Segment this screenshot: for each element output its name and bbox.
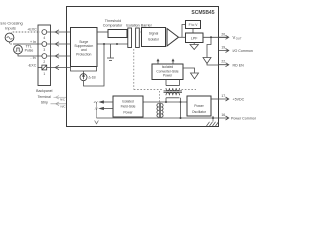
isolation barrier dashed line vertical xyxy=(133,49,135,90)
svg-text:Isolator: Isolator xyxy=(148,37,160,41)
pin 16 stub xyxy=(219,116,229,120)
transformer T1 secondary bar xyxy=(136,28,140,48)
svg-text:17: 17 xyxy=(221,94,225,98)
svg-text:+V: +V xyxy=(94,101,99,105)
transformer T3 core xyxy=(159,103,160,118)
isolation barrier dashed line through field transformer xyxy=(159,91,161,102)
svg-text:Power Common: Power Common xyxy=(231,117,256,121)
svg-text:3: 3 xyxy=(43,48,45,52)
wire oscillator to +5VDC pin xyxy=(211,98,219,100)
svg-text:-EXC: -EXC xyxy=(28,64,37,68)
block U4 F to V converter xyxy=(186,21,201,29)
svg-text:Signal: Signal xyxy=(149,31,159,35)
svg-text:Comparator: Comparator xyxy=(103,24,123,28)
isolation barrier dashed line horizontal xyxy=(134,89,164,91)
svg-text:Power: Power xyxy=(163,73,173,77)
block U7 isolated field-side power xyxy=(113,96,143,117)
wire surge to comparator xyxy=(97,31,108,33)
pin socket arrow terminal 2 xyxy=(55,54,59,58)
label Backpanel Terminal Strip xyxy=(36,89,53,105)
wire dashed from AC source bottom to +In line xyxy=(10,42,14,44)
transformer T1 primary bar xyxy=(128,28,132,48)
wire -EXC stub to terminal 1 xyxy=(38,67,42,69)
svg-text:+5VDC: +5VDC xyxy=(233,98,245,102)
wire field common drop xyxy=(96,102,98,118)
wire converter power to transformer T2 xyxy=(166,80,180,86)
junction T2 primary left xyxy=(165,101,167,103)
wire amp output node xyxy=(179,36,186,38)
pin 20 stub xyxy=(219,35,229,39)
wire riser to F to V converter xyxy=(182,25,186,38)
label Vout xyxy=(233,35,242,41)
terminal 2 screw xyxy=(42,54,47,59)
source V1 zero-crossing AC source xyxy=(5,33,14,42)
backpanel terminal strip outline xyxy=(38,25,51,86)
op-amp A1 buffer xyxy=(167,29,179,47)
svg-text:+ In: + In xyxy=(30,40,36,44)
block U3 signal isolator xyxy=(142,28,166,47)
junction on +In reference wire xyxy=(103,43,105,45)
chassis ground power common xyxy=(207,118,219,126)
supply arrow -V xyxy=(100,107,113,109)
junction Vout common branch xyxy=(210,36,212,38)
svg-text:Strip: Strip xyxy=(41,101,48,105)
wire terminal 1 to module pin xyxy=(47,67,71,69)
svg-text:Backpanel: Backpanel xyxy=(36,89,53,93)
svg-text:1: 1 xyxy=(43,72,45,76)
terminal 4 screw xyxy=(42,30,47,35)
svg-text:RD EN: RD EN xyxy=(233,63,245,67)
wire dashed +EXC from AC source to terminal 4 xyxy=(11,32,41,34)
svg-text:22: 22 xyxy=(221,60,225,64)
common symbol converter power xyxy=(191,73,199,79)
junction comparator reference xyxy=(116,43,118,45)
label Threshold Comparator xyxy=(103,19,123,28)
transformer T2 secondary winding top xyxy=(166,86,180,91)
terminal 3 screw xyxy=(42,42,47,47)
svg-text:+EXC: +EXC xyxy=(27,28,37,32)
junction T2 right lead crossing xyxy=(180,101,182,103)
transformer T3 field-side left winding xyxy=(157,104,159,118)
block U5 LPF xyxy=(186,33,204,43)
svg-text:Power: Power xyxy=(123,111,133,115)
wire oscillator drive bus xyxy=(143,101,187,103)
wire T2 primary left lead xyxy=(165,98,167,102)
wire T2 primary right lead to power bus xyxy=(180,98,182,118)
wire oscillator common stub xyxy=(212,116,214,118)
pin socket arrow N/C upper xyxy=(56,96,59,100)
svg-text:F to V: F to V xyxy=(189,23,199,27)
svg-text:OUT: OUT xyxy=(236,37,242,41)
module outline SCM5B45 xyxy=(67,7,219,127)
svg-text:Isolated: Isolated xyxy=(122,100,134,104)
svg-text:4: 4 xyxy=(43,36,45,40)
pin 22 stub xyxy=(219,63,229,67)
pin N/C upper stub xyxy=(54,96,67,98)
pin 17 stub xyxy=(219,97,229,101)
common symbol I/O xyxy=(203,58,211,64)
svg-text:Terminal: Terminal xyxy=(38,95,51,99)
wire converter power common xyxy=(183,68,195,73)
svg-text:I/O Common: I/O Common xyxy=(233,49,253,53)
wire LPF output to Vout pin xyxy=(203,36,228,38)
transformer T2 primary winding bottom xyxy=(166,93,180,98)
wire -In from TTL source bottom to terminal 2 xyxy=(18,54,42,56)
svg-text:20: 20 xyxy=(221,32,225,36)
junction oscillator on power bus xyxy=(212,117,214,119)
pin socket arrow terminal 1 xyxy=(55,65,59,69)
wire bias source stub xyxy=(83,71,85,74)
source V2 TTL pulse source xyxy=(14,45,23,54)
supply arrow converter power right xyxy=(172,59,174,64)
wire reference to transformer primary xyxy=(97,43,128,45)
block U2 threshold comparator xyxy=(108,30,127,38)
pin socket arrow terminal 4 xyxy=(55,30,59,34)
supply arrow +V xyxy=(100,101,113,103)
pin N/C lower stub xyxy=(51,103,67,105)
pin socket arrow N/C lower xyxy=(56,102,59,106)
pin 19 stub xyxy=(219,49,229,53)
wire terminal 4 to module pin xyxy=(47,31,71,33)
svg-text:Oscillator: Oscillator xyxy=(192,110,207,114)
svg-text:Power: Power xyxy=(194,104,204,108)
wire from bias source to reference node xyxy=(84,44,105,86)
terminal 1 screw xyxy=(42,65,47,70)
isolation barrier dashed line right of transformer xyxy=(182,89,197,91)
block U8 power oscillator xyxy=(187,96,211,116)
svg-text:- In: - In xyxy=(30,56,35,60)
wire common to RD EN pin xyxy=(207,64,219,66)
label TTL Pulse xyxy=(25,44,34,52)
wire T1 secondary to signal isolator xyxy=(141,31,142,33)
pin socket arrow terminal 3 xyxy=(55,42,59,46)
block U1 surge suppression and protection xyxy=(71,28,98,67)
ground G1 reference decoupling xyxy=(107,44,114,60)
svg-text:-V: -V xyxy=(94,107,98,111)
svg-text:LPF: LPF xyxy=(191,36,198,40)
wire +In from sources to terminal 3 xyxy=(13,43,42,45)
svg-text:Pulse: Pulse xyxy=(25,49,34,53)
current source I1 bias xyxy=(80,74,87,81)
svg-text:SCM5B45: SCM5B45 xyxy=(191,10,214,16)
svg-text:N/C: N/C xyxy=(61,104,66,108)
svg-text:19: 19 xyxy=(221,46,225,50)
svg-text:Δ-1B: Δ-1B xyxy=(89,76,96,80)
wire F to V output to LPF xyxy=(192,29,194,34)
svg-text:Field-Side: Field-Side xyxy=(121,105,136,109)
supply arrow converter power left xyxy=(157,59,159,64)
wire bias bus below surge block xyxy=(71,67,97,72)
wire common branch to I/O common symbol xyxy=(207,37,211,57)
wire terminal 2 to module pin xyxy=(47,55,71,57)
svg-text:Inputs: Inputs xyxy=(5,26,16,31)
svg-text:N/C: N/C xyxy=(60,97,65,101)
svg-text:Threshold: Threshold xyxy=(105,19,121,23)
svg-text:2: 2 xyxy=(43,60,45,64)
transformer T2 core xyxy=(164,91,183,92)
wire LPF common stub xyxy=(193,43,195,45)
wire power common bus xyxy=(97,117,220,119)
transformer T3 right winding xyxy=(161,104,163,118)
field common arrow symbol xyxy=(95,121,99,124)
svg-text:Isolation Barrier: Isolation Barrier xyxy=(126,24,153,28)
common symbol below LPF xyxy=(190,45,198,50)
svg-text:Protection: Protection xyxy=(76,52,91,56)
svg-text:16: 16 xyxy=(221,113,225,117)
wire terminal 3 to module pin xyxy=(47,43,71,45)
junction T2 right lead on bus xyxy=(180,117,182,119)
block U6 isolated converter-side power xyxy=(152,64,183,80)
label Zero Crossing Inputs xyxy=(0,21,23,31)
